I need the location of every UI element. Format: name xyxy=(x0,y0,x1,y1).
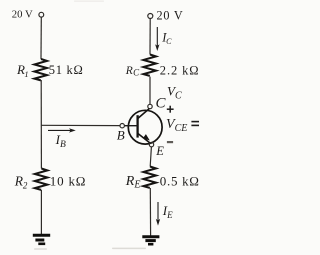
transistor Q1 circle xyxy=(128,110,162,144)
arrow IB xyxy=(48,129,72,131)
svg-text:E: E xyxy=(155,144,164,158)
wire R2 to ground xyxy=(40,190,42,234)
svg-text:B: B xyxy=(117,128,125,143)
wire RC to C xyxy=(149,77,151,105)
svg-text:0.5 kΩ: 0.5 kΩ xyxy=(160,174,200,189)
resistor R2 xyxy=(35,169,48,190)
arrow IC xyxy=(156,27,158,46)
node C terminal xyxy=(148,104,152,108)
equals sign xyxy=(191,122,199,126)
svg-text:10 kΩ: 10 kΩ xyxy=(50,174,86,189)
collector lead xyxy=(138,109,150,119)
arrow IE xyxy=(157,202,159,221)
svg-text:RC: RC xyxy=(125,65,140,78)
base lead wire xyxy=(125,125,138,127)
wire base (junction to B) xyxy=(41,124,120,126)
resistor RC xyxy=(143,55,156,76)
emitter arrowhead xyxy=(143,134,150,140)
node B terminal xyxy=(120,124,124,128)
node E terminal xyxy=(149,142,153,146)
terminal left supply xyxy=(39,12,44,17)
svg-text:C: C xyxy=(156,96,167,112)
wire left supply to R1 xyxy=(40,17,42,59)
wire R1 to junction to R2 xyxy=(40,80,42,169)
svg-text:20 V: 20 V xyxy=(12,8,33,20)
wire right supply to RC xyxy=(149,19,151,55)
svg-text:51 kΩ: 51 kΩ xyxy=(49,63,84,77)
minus sign xyxy=(167,141,173,143)
plus sign xyxy=(167,106,174,113)
resistor R1 xyxy=(34,59,47,80)
ground left xyxy=(33,235,50,244)
wire RE to ground xyxy=(149,188,151,236)
resistor RE xyxy=(143,167,156,188)
emitter lead xyxy=(138,133,151,143)
scan smudge marks (faint) xyxy=(34,1,146,250)
terminal right supply xyxy=(148,14,153,19)
svg-text:2.2 kΩ: 2.2 kΩ xyxy=(160,63,200,77)
transistor base bar xyxy=(136,115,138,137)
wire E to RE xyxy=(150,147,151,167)
ground right xyxy=(142,237,159,245)
svg-text:20 V: 20 V xyxy=(157,9,184,23)
